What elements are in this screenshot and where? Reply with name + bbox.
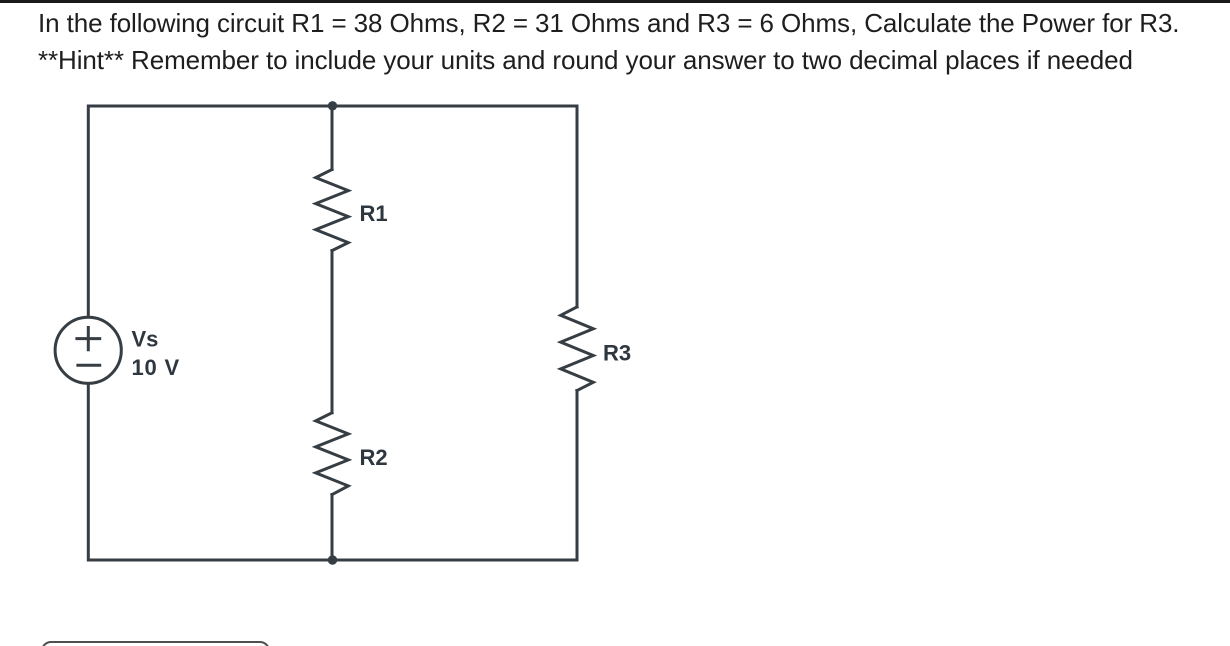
svg-text:R1: R1 <box>360 201 388 226</box>
wire: middle branch top stub into R1 <box>331 106 334 170</box>
svg-text:R2: R2 <box>360 445 388 470</box>
wire: middle branch below R2 to bottom rail <box>331 495 334 560</box>
resistor R1 <box>316 170 349 251</box>
answer input box <box>41 641 270 646</box>
node junction dot top <box>328 101 337 110</box>
top black bar <box>0 0 1230 3</box>
wire: left rail below source down to bottom-left, bottom rail to bottom-right, right rail up to R3 bottom <box>88 386 577 561</box>
svg-text:R3: R3 <box>603 341 631 366</box>
svg-text:Vs: Vs <box>132 327 159 352</box>
resistor R3 <box>561 307 594 391</box>
voltage source V1 circle <box>55 317 121 383</box>
voltage source plus sign <box>77 328 100 350</box>
resistor R2 <box>316 413 349 495</box>
svg-text:10 V: 10 V <box>132 355 180 380</box>
voltage source minus sign <box>78 364 100 367</box>
question text <box>38 5 1218 79</box>
wire: middle branch between R1 and R2 <box>331 251 334 413</box>
wire: top rail from top-left corner to top-right corner <box>88 106 577 315</box>
node junction dot bottom <box>328 555 337 564</box>
